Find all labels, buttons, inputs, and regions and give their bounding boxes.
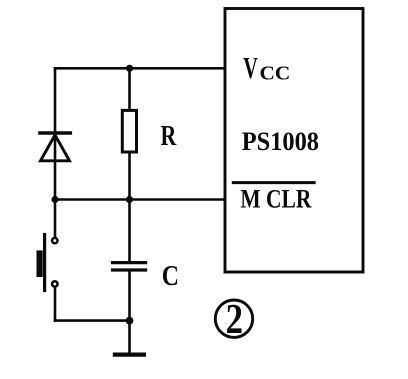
junction dot at VCC rail / resistor (126, 65, 133, 72)
switch S1 bottom terminal (52, 281, 57, 286)
wire bottom rail (switch to capacitor) (55, 319, 130, 322)
wire resistor bottom to capacitor top (128, 152, 131, 262)
wire diode anode down to MCLR rail (54, 134, 57, 200)
junction dot at MCLR rail / diode (51, 196, 58, 203)
switch S1 button cap (37, 250, 43, 277)
svg-text:C: C (162, 261, 179, 292)
wire MCLR rail (horizontal to IC) (55, 198, 225, 201)
wire switch bottom lead (54, 288, 57, 321)
svg-text:R: R (161, 121, 177, 152)
wire switch top lead (54, 200, 57, 237)
wire left vertical (top corner down to diode) (54, 68, 57, 131)
capacitor C top plate (113, 261, 146, 264)
svg-text:M CLR: M CLR (240, 184, 312, 214)
figure number circle (215, 300, 252, 337)
ground (115, 353, 144, 357)
svg-text:PS1008: PS1008 (242, 126, 319, 156)
junction dot at bottom rail / capacitor (126, 317, 134, 325)
svg-text:V: V (243, 51, 258, 85)
resistor R body (122, 110, 136, 152)
capacitor C bottom plate (113, 268, 146, 271)
diode D1 cathode bar (40, 131, 70, 135)
pin label MCLR overline (232, 181, 316, 184)
wire mid vertical top (junction to resistor) (128, 68, 131, 110)
svg-text:CC: CC (260, 63, 291, 85)
svg-text:2: 2 (226, 296, 243, 343)
wire to ground (128, 321, 131, 353)
diode D1 triangle (41, 135, 70, 161)
IC U1 PS1008 box (225, 9, 363, 273)
wire capacitor bottom to bottom rail (128, 271, 131, 321)
switch S1 actuator bar (43, 235, 46, 291)
wire VCC rail (top horizontal) (55, 67, 225, 70)
switch S1 top terminal (52, 238, 57, 243)
junction dot at MCLR rail / resistor (126, 196, 133, 203)
